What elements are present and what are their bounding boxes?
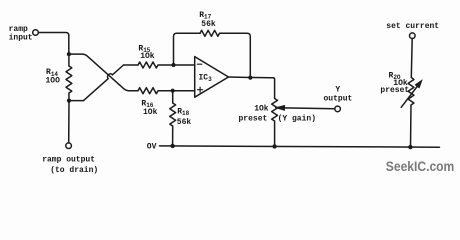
- svg-text:SeekIC.com: SeekIC.com: [386, 159, 455, 174]
- node E (output junction): [248, 76, 252, 80]
- terminal: Y output: [335, 106, 341, 112]
- svg-text:ramp output: ramp output: [42, 156, 95, 165]
- node A (junction top of R14): [67, 52, 71, 56]
- wire: node A via crossing to R16 (+ input path): [69, 54, 138, 91]
- svg-text:set current: set current: [386, 22, 439, 31]
- op-amp IC3: [195, 57, 229, 98]
- node B (junction bottom of R14): [67, 99, 71, 103]
- junction R20/rail: [408, 145, 412, 149]
- svg-text:preset: preset: [380, 86, 409, 95]
- resistor R18: [170, 91, 176, 146]
- svg-text:preset: preset: [239, 114, 268, 123]
- plus sign: [198, 87, 203, 92]
- wire: node B down to ramp output terminal: [68, 101, 70, 143]
- wire + potentiometer 10k preset (Y gain): [272, 78, 278, 147]
- terminal: ramp input: [33, 30, 39, 36]
- wire: node B via crossing (hop) to R15 (- input path): [69, 100, 84, 102]
- wiper arrow of Y gain pot: [284, 107, 335, 110]
- svg-text:R18: R18: [177, 107, 189, 117]
- svg-text:1Ok: 1Ok: [254, 104, 269, 113]
- resistor R14: [66, 54, 72, 101]
- wire: ramp input to node A: [38, 33, 69, 55]
- junction R18/rail: [170, 144, 174, 148]
- junction pot/rail: [272, 144, 276, 148]
- resistor R17: [200, 30, 220, 36]
- svg-text:1OO: 1OO: [46, 76, 61, 85]
- svg-text:Y: Y: [335, 85, 340, 94]
- svg-text:(to drain): (to drain): [50, 166, 98, 175]
- minus sign: [197, 63, 201, 65]
- wire: op-amp output: [229, 76, 272, 79]
- 0V rail: [160, 146, 440, 147]
- svg-text:1Ok: 1Ok: [140, 52, 155, 61]
- svg-text:OV: OV: [147, 142, 157, 151]
- svg-text:input: input: [9, 34, 33, 43]
- terminal: set current: [410, 33, 416, 39]
- svg-text:(Y gain): (Y gain): [278, 115, 316, 124]
- svg-text:IC3: IC3: [199, 73, 213, 83]
- resistor R16: [138, 88, 195, 94]
- node C (inverting input / feedback tap): [171, 63, 175, 67]
- node D (non-inverting input / R18 tap): [171, 89, 175, 93]
- svg-text:output: output: [324, 95, 353, 104]
- svg-text:56k: 56k: [201, 20, 216, 29]
- resistor R15: [138, 62, 195, 68]
- terminal: ramp output: [66, 143, 72, 149]
- preset R20 10k (wire + zigzag): [408, 39, 414, 147]
- svg-text:56k: 56k: [177, 118, 192, 127]
- wiper arrow of R20: [401, 86, 418, 108]
- wire/feedback: node C up, R17, down to output node E: [174, 33, 201, 65]
- svg-text:1Ok: 1Ok: [143, 108, 158, 117]
